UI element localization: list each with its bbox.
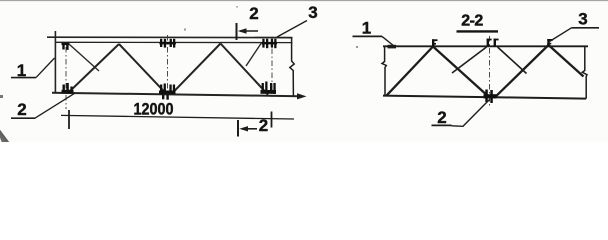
faint dot specks (184, 29, 186, 31)
leader 3 right (550, 28, 572, 42)
section mark 2 top arrow (240, 30, 258, 32)
svg-text:2-2: 2-2 (461, 13, 483, 30)
svg-text:12000: 12000 (134, 100, 174, 119)
diagonal panel1 up (69, 44, 119, 92)
centerline middle right drawing (489, 36, 491, 108)
top chord upper line (47, 36, 293, 38)
leader 1 (36, 58, 55, 78)
svg-text:1: 1 (362, 19, 371, 38)
dimension tick left (68, 110, 70, 129)
scan edge line top (0, 0, 608, 2)
top chord lower line (56, 41, 293, 43)
svg-text:2: 2 (437, 108, 446, 127)
gusset bolts bottom middle (159, 84, 176, 100)
svg-text:2: 2 (249, 4, 258, 23)
bottom chord (52, 93, 299, 96)
leader 2 right (452, 100, 490, 127)
diagonal rd up1 (387, 47, 434, 96)
substrut panel1 left (70, 45, 100, 72)
svg-text:2: 2 (259, 116, 268, 135)
underline 1 right (353, 35, 383, 37)
leader 1 right (382, 36, 394, 46)
centerline left node (65, 47, 67, 109)
gusset bolts top right (262, 39, 278, 48)
scan smudge bottom-left (0, 129, 9, 143)
leader for 3 (277, 21, 307, 38)
svg-text:2: 2 (17, 100, 26, 119)
underline 1 (11, 77, 36, 79)
bottom chord right drawing (383, 96, 586, 99)
bottom chord end arrow (297, 93, 307, 99)
diagonal rd up2 (495, 45, 549, 97)
gusset bolts bottom right (261, 82, 277, 95)
underline 3 right (572, 27, 600, 29)
section mark 2 bottom tick (237, 120, 239, 137)
dimension tick right (271, 112, 273, 128)
flag bolts centre top (487, 39, 499, 47)
title underline (457, 30, 499, 32)
diagonal panel2 up (172, 44, 221, 94)
diagonal rd down2 (549, 45, 584, 77)
left end post with break (382, 46, 386, 96)
underline 2 right (432, 124, 452, 126)
svg-text:3: 3 (578, 10, 587, 29)
top chord right drawing (383, 45, 588, 47)
section mark 2 top tick (236, 23, 238, 40)
dimension line (61, 115, 294, 119)
svg-text:3: 3 (308, 3, 317, 22)
gusset bolts top middle (159, 39, 176, 48)
leader 2 (36, 93, 75, 118)
underline 2 (11, 117, 36, 119)
flag bolt at 433 (432, 39, 438, 46)
substrut panel2 right (246, 44, 261, 67)
substrut rd 1 (452, 47, 487, 73)
leader end blob on chord (label 1) (388, 45, 397, 49)
right end post with break (582, 46, 587, 98)
centerline right node (271, 37, 273, 98)
diagonal panel2 down (221, 44, 269, 95)
substrut rd 2 (498, 47, 527, 74)
flag bolt at 548 (547, 39, 553, 47)
left end post (54, 31, 56, 94)
gusset bolts bottom left (62, 83, 74, 94)
gusset bolts top left (62, 43, 70, 50)
section mark 2 bottom arrow (242, 128, 258, 130)
diagonal panel1 down (119, 44, 166, 93)
right end post with break (290, 38, 294, 97)
centerline middle node (167, 35, 169, 98)
scan tick left edge (0, 95, 3, 98)
bolts centre bottom right drawing (484, 90, 497, 104)
diagonal rd down1 (433, 47, 489, 98)
